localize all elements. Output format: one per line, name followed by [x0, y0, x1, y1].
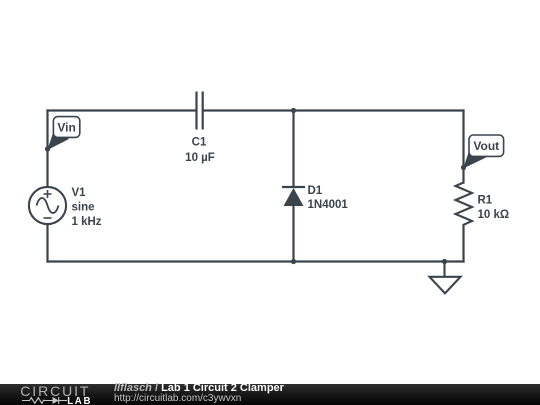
label V1 [72, 187, 87, 199]
wire top-right horizontal from C1 right plate to right corner [204, 109, 464, 111]
wire bottom rail [48, 260, 464, 262]
node Vout flag [461, 135, 504, 170]
diode D1 [282, 187, 305, 206]
svg-text:Vout: Vout [473, 139, 499, 153]
footer url text [114, 394, 241, 404]
node junction dot ground [442, 259, 447, 264]
value 1N4001 [308, 199, 349, 211]
label C1 [192, 137, 207, 149]
svg-text:D1: D1 [308, 185, 323, 197]
svg-text:R1: R1 [478, 195, 493, 207]
node junction dot top (C1-D1-R1 net) [291, 108, 296, 113]
ground [430, 262, 461, 294]
wire right vertical from resistor R1 bottom to bottom rail [462, 225, 464, 262]
svg-text:10 kΩ: 10 kΩ [478, 209, 510, 221]
value 10 uF [185, 152, 215, 164]
wire right vertical from top corner to resistor R1 top [462, 111, 464, 183]
wire diode branch from D1 to bottom rail [292, 206, 294, 262]
footer bar [0, 384, 540, 405]
svg-text:10 µF: 10 µF [185, 152, 215, 164]
wire left vertical from top corner down to V1 top [46, 111, 48, 188]
CircuitLab logo [0, 384, 110, 405]
svg-text:1 kHz: 1 kHz [72, 216, 102, 228]
label R1 [478, 195, 493, 207]
svg-text:1N4001: 1N4001 [308, 199, 349, 211]
value 10 kOhm [478, 209, 510, 221]
capacitor C1 [197, 92, 203, 130]
voltage source V1 [29, 187, 66, 224]
label D1 [308, 185, 323, 197]
svg-text:sine: sine [72, 202, 95, 214]
svg-text:V1: V1 [72, 187, 87, 199]
value sine [72, 202, 95, 214]
svg-text:Vin: Vin [57, 120, 75, 134]
value 1 kHz [72, 216, 102, 228]
wire top-left horizontal from Vin corner to C1 left plate [48, 109, 196, 111]
wire diode branch from top rail to D1 [292, 111, 294, 187]
resistor R1 [456, 183, 473, 225]
wire left vertical from V1 bottom to bottom rail [46, 225, 48, 262]
node junction dot bottom (D1 anode net) [291, 259, 296, 264]
svg-text:C1: C1 [192, 137, 207, 149]
svg-text:LAB: LAB [67, 395, 92, 405]
node Vin flag [45, 117, 80, 152]
footer title text [114, 383, 284, 394]
